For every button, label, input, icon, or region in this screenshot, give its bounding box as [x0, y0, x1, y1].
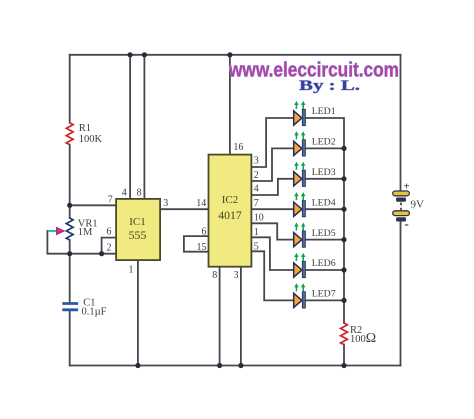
svg-text:1: 1 — [254, 227, 259, 238]
svg-text:4: 4 — [122, 187, 127, 198]
node bottom rail / R2 — [341, 363, 346, 368]
wire VR1 wiper — [47, 231, 69, 254]
svg-text:16: 16 — [233, 142, 243, 153]
wire LED1 cathode to bus — [305, 118, 344, 323]
node bus LED7 — [341, 298, 346, 303]
node bottom rail / IC2 pin3 — [238, 363, 243, 368]
wire IC2 pin 6 to pin 15 loop — [184, 236, 209, 252]
LED5 — [294, 223, 336, 248]
LED4 — [294, 192, 336, 217]
svg-text:3: 3 — [234, 270, 239, 281]
node left rail / pin7 — [67, 203, 72, 208]
wire IC1 pin 1 to bottom rail — [137, 260, 139, 365]
svg-text:1: 1 — [129, 265, 134, 276]
IC1 555 timer — [116, 199, 160, 260]
node bus LED5 — [341, 237, 346, 242]
svg-text:100K: 100K — [79, 134, 103, 145]
wire LED3 cathode to bus — [305, 178, 344, 180]
svg-text:2: 2 — [107, 243, 112, 254]
wire R2 to bottom rail — [343, 345, 345, 366]
wire IC1 pin 3 to IC2 pin 14 — [160, 208, 208, 210]
node bus LED6 — [341, 267, 346, 272]
wire IC1 pin 4 to top rail — [129, 55, 131, 199]
svg-text:9V: 9V — [411, 199, 425, 211]
LED3 — [294, 162, 336, 187]
svg-text:8: 8 — [212, 270, 217, 281]
node bus LED3 — [341, 176, 346, 181]
wire LED4 cathode to bus — [305, 208, 344, 210]
svg-text:2: 2 — [254, 170, 259, 181]
wire right rail lower (battery to bottom) — [400, 222, 402, 366]
node bottom rail / IC2 pin8 — [217, 363, 222, 368]
wire IC2 pin 3 to LED1 — [251, 118, 293, 167]
svg-text:3: 3 — [163, 198, 168, 209]
IC2 4017 decade counter — [209, 155, 252, 267]
IC1 pin labels — [107, 187, 207, 275]
svg-text:1M: 1M — [78, 227, 93, 238]
wire LED7 cathode to bus — [305, 299, 344, 301]
IC2 pin labels — [197, 142, 264, 281]
node bus LED4 — [341, 207, 346, 212]
wire left rail R1 to VR1 — [69, 145, 71, 218]
wire left rail upper (top to R1) — [69, 55, 71, 123]
wire IC2 pin 10 to LED5 — [251, 223, 293, 239]
svg-text:3: 3 — [254, 156, 259, 167]
svg-text:IC1: IC1 — [129, 216, 146, 228]
svg-text:555: 555 — [129, 228, 147, 242]
capacitor C1 — [62, 298, 106, 318]
svg-text:LED2: LED2 — [312, 137, 336, 148]
svg-text:6: 6 — [202, 227, 207, 238]
svg-text:LED4: LED4 — [312, 197, 336, 208]
potentiometer VR1 — [48, 218, 97, 240]
wire IC2 pin 7 to LED4 — [251, 208, 293, 210]
wire IC1 pin 7 to left rail — [70, 204, 116, 206]
svg-text:5: 5 — [254, 241, 259, 252]
svg-text:LED6: LED6 — [312, 258, 336, 269]
svg-text:IC2: IC2 — [222, 194, 239, 206]
site watermark text — [228, 60, 399, 82]
node pin6 loop / pin2 — [99, 251, 104, 256]
svg-text:By : L.: By : L. — [299, 78, 360, 94]
battery BT1 9V — [393, 181, 424, 232]
svg-text:7: 7 — [254, 198, 259, 209]
LED1 — [294, 101, 336, 126]
svg-text:0.1µF: 0.1µF — [82, 307, 107, 318]
LED6 — [294, 253, 336, 278]
wire IC2 pin 2 to LED2 — [251, 148, 293, 181]
svg-text:7: 7 — [108, 195, 113, 206]
node VR1 bottom — [67, 251, 72, 256]
wire IC2 pin 8 to bottom rail — [219, 267, 221, 366]
wire top rail — [70, 54, 401, 56]
svg-text:LED7: LED7 — [312, 289, 336, 300]
wire left rail C1 to bottom — [69, 311, 71, 366]
LED7 — [294, 283, 336, 308]
svg-text:14: 14 — [196, 198, 206, 209]
wire IC2 pin 4 to LED3 — [251, 179, 293, 195]
svg-text:+: + — [404, 181, 410, 193]
wire left rail VR1 to C1 — [69, 240, 71, 303]
resistor R2 — [341, 323, 377, 346]
node bottom rail / IC1 pin1 — [135, 363, 140, 368]
LED2 — [294, 131, 336, 156]
wire IC1 pin 8 to top rail — [143, 55, 145, 199]
author text — [299, 78, 360, 94]
node top rail / IC1 pin8 — [142, 52, 147, 57]
svg-text:R1: R1 — [79, 123, 91, 134]
node top rail / IC2 pin16 — [227, 52, 232, 57]
wire IC2 pin 1 to LED6 — [251, 237, 293, 270]
wire LED6 cathode to bus — [305, 269, 344, 271]
svg-text:15: 15 — [197, 242, 207, 253]
svg-text:100Ω: 100Ω — [350, 331, 376, 346]
wire VR1 bottom to IC1 pin 2 — [70, 253, 116, 255]
node bus LED2 — [341, 146, 346, 151]
wire bottom rail — [70, 365, 401, 367]
wire IC2 pin 3 bottom to bottom rail — [240, 267, 242, 366]
wire IC1 pin 6 loop to pin 2 — [102, 238, 117, 254]
svg-text:4: 4 — [254, 184, 259, 195]
svg-text:10: 10 — [254, 212, 264, 223]
wire IC2 pin 16 to top rail — [229, 55, 231, 155]
wire LED2 cathode to bus — [305, 147, 344, 149]
svg-text:-: - — [405, 216, 409, 231]
wire LED5 cathode to bus — [305, 239, 344, 241]
svg-text:LED1: LED1 — [312, 106, 336, 117]
wire IC2 pin 5 to LED7 — [251, 251, 293, 300]
svg-text:LED3: LED3 — [312, 167, 336, 178]
resistor R1 — [66, 123, 102, 145]
svg-text:6: 6 — [107, 226, 112, 237]
node top rail / IC1 pin4 — [128, 52, 133, 57]
wire right rail upper (top to battery) — [400, 55, 402, 191]
svg-text:4017: 4017 — [218, 208, 242, 222]
svg-text:LED5: LED5 — [312, 228, 336, 239]
svg-text:8: 8 — [137, 187, 142, 198]
